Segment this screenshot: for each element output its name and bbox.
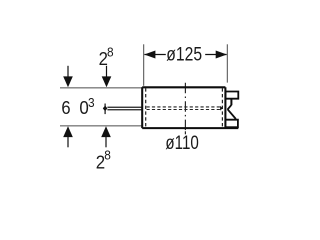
hidden rod dashed lines inside body — [147, 106, 221, 108]
body outline of cap — [142, 87, 238, 128]
dimension arrow bottom-right up — [101, 126, 111, 147]
dimension line dia125 with arrows — [144, 54, 226, 56]
svg-text:3: 3 — [88, 96, 95, 110]
wire bottom wall line — [60, 125, 142, 127]
svg-text:8: 8 — [107, 45, 114, 59]
wire top wall line — [60, 87, 143, 89]
clip diagonal lower — [228, 109, 236, 119]
arrowhead left of dia125 — [144, 51, 155, 59]
rod end arrowhead — [220, 106, 223, 111]
arrowhead right of dia125 — [216, 51, 227, 59]
clip leg top — [230, 99, 232, 106]
extension line right (dia 125) — [226, 44, 228, 82]
top tab (clip) — [225, 92, 238, 99]
extension line left (dia 125) — [143, 44, 145, 86]
dimension arrow top-left down — [63, 66, 73, 88]
dimension arrow top-right down — [102, 66, 112, 88]
centerline tick below body — [184, 131, 186, 134]
thin-feature dimension symbol (stem + opposing arrowheads) — [103, 104, 108, 115]
svg-text:ø110: ø110 — [165, 133, 198, 154]
hidden edge dashed vertical left — [145, 88, 147, 127]
dimension arrow bottom-left up — [63, 126, 73, 147]
hidden edge dashed vertical right — [221, 88, 223, 127]
centerline vertical (dash-dot) — [184, 83, 186, 131]
clip diagonal upper — [228, 105, 232, 110]
bottom tab lower edge (merges with body bottom) — [225, 126, 238, 128]
svg-text:6: 6 — [61, 97, 70, 118]
svg-text:8: 8 — [104, 148, 111, 162]
bottom tab (clip) — [225, 120, 238, 128]
svg-text:ø125: ø125 — [166, 45, 202, 66]
wire rod solid double line — [107, 106, 142, 108]
